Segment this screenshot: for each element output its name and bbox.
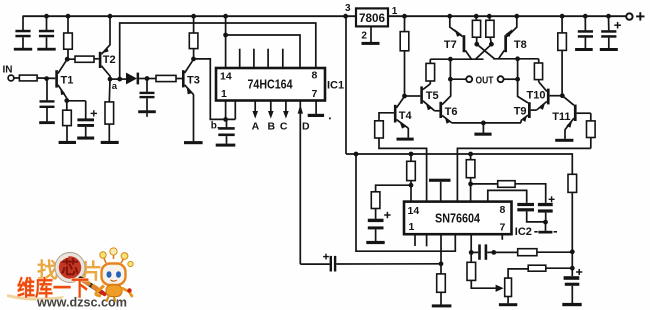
wire: right OUT terminal to node (504, 78, 518, 80)
wire: junction to R14 (376, 185, 411, 192)
svg-text:T7: T7 (444, 39, 457, 51)
resistor Rm1 (cross-couple left) (472, 14, 480, 44)
node: C13 right node (491, 250, 496, 255)
svg-text:IC1: IC1 (327, 80, 344, 92)
pin label 1 (IC2) (409, 221, 415, 233)
svg-text:2: 2 (361, 31, 367, 42)
transistor T4 (394, 96, 413, 137)
wire: 7806 input down to lower rail (345, 16, 347, 154)
wiper arrow into potentiometer (496, 285, 504, 292)
svg-text:T6: T6 (445, 106, 458, 118)
svg-text:T10: T10 (527, 89, 546, 101)
pin label 3 (7806) (345, 3, 351, 14)
capacitor C5 (after diode) (140, 79, 155, 111)
wire: D input line down to lower stage (298, 101, 310, 265)
transistor T5 (420, 84, 439, 111)
ground (common emitter) (474, 133, 491, 136)
mark: period after IC1 (329, 118, 331, 120)
resistor R9 (T5 collector load) (426, 59, 435, 84)
resistor R4 (T1 emitter to gnd) (63, 101, 72, 141)
transistor T11 (552, 96, 591, 139)
resistor R5 (to T3 base) (147, 75, 182, 81)
transistor T2 (99, 16, 116, 79)
svg-text:T8: T8 (514, 39, 527, 51)
svg-text:1: 1 (409, 221, 415, 233)
wire: cross-couple bus left (430, 58, 483, 60)
value label SN76604 (435, 211, 480, 225)
resistor R7 (rail to T4/T5 node) (400, 14, 409, 96)
pin label 7 (IC1) (312, 88, 318, 100)
svg-text:T5: T5 (426, 90, 439, 102)
resistor R22 (supply dropper) (568, 174, 577, 192)
wire: IC2 bottom stub 1 (414, 234, 416, 246)
svg-text:A: A (252, 120, 260, 132)
resistor R19 (pot feed) (528, 265, 572, 271)
node: 7806 input node (343, 14, 348, 19)
svg-text:8: 8 (500, 204, 506, 216)
output arrow B (IC1) (268, 101, 276, 133)
node: left OUT tap (448, 57, 453, 62)
svg-text:7806: 7806 (359, 11, 385, 25)
node: diode cathode junction (145, 76, 150, 81)
node: H2 / R13 tap (409, 152, 414, 157)
value label 7806 (359, 11, 385, 25)
wire: C12 to R17 node (336, 263, 441, 265)
node: T3 collector junction (191, 57, 196, 62)
wire: IC1 unconnected stub 3 (267, 49, 269, 68)
op-amp U2: IC2 SN76604 body (404, 202, 512, 235)
svg-text:74HC164: 74HC164 (248, 78, 293, 92)
node: pin9 feed junction (468, 182, 473, 187)
resistor R8 (T4 base feed) (375, 113, 427, 202)
capacitor C11 electrolytic (538, 196, 555, 222)
svg-text:14: 14 (220, 71, 232, 83)
svg-text:SN76604: SN76604 (435, 211, 480, 225)
wire: +V top rail (right of 7806) (388, 15, 626, 17)
terminal: OUT right (498, 76, 504, 82)
resistor R14 (filter) (371, 192, 380, 219)
transistor T10 (527, 82, 563, 110)
resistor R1 (rail to T1 collector) (64, 14, 73, 59)
wire: pot top to R19 (508, 269, 528, 278)
terminal: +V supply (626, 13, 632, 19)
svg-text:IC2: IC2 (515, 226, 532, 238)
resistor R16 (to C11) (498, 181, 515, 188)
node: left OUT node (448, 77, 453, 82)
transistor T3 (182, 59, 200, 141)
resistor R21 (wiper feed) (467, 252, 496, 288)
ground (C9) (366, 241, 384, 244)
node: T10 base / T11 junction (560, 93, 565, 98)
capacitor C14 electrolytic (output filter) (564, 269, 583, 303)
transistor T6 (439, 79, 457, 124)
label IC1 (327, 80, 344, 92)
node: pin14 feed junction (409, 183, 414, 188)
ground (C4) (77, 137, 94, 140)
terminal: OUT left (466, 76, 472, 82)
node: Rm1 bottom (474, 42, 479, 47)
pin label 1 (IC1) (221, 88, 227, 100)
svg-text:8: 8 (312, 70, 318, 82)
capacitor C8 electrolytic (rail bypass right) (600, 14, 621, 51)
svg-text:芯: 芯 (61, 257, 79, 278)
wire: IC2 pin stub to R17 (440, 234, 442, 274)
output arrow A (IC1) (252, 101, 260, 133)
ground (R5a) (101, 141, 119, 144)
wire: right tap down (517, 59, 519, 79)
label IN (3, 65, 13, 76)
node: R17 top node (439, 261, 444, 266)
wire: node a to diode (110, 78, 126, 80)
node: right OUT node (515, 77, 520, 82)
capacitor C10 (IC2 bypass) (517, 203, 545, 222)
resistor R17 (to gnd) (437, 274, 446, 305)
pin label 7 (IC2) (500, 222, 506, 234)
node: T1 base junction (44, 76, 49, 81)
ground (R17) (432, 304, 452, 307)
capacitor C6 (node b to gnd) (218, 119, 234, 143)
ground (C14) (562, 303, 581, 306)
ground (C5) (138, 110, 156, 117)
ground (T4 emitter) (397, 138, 414, 141)
resistor R13 (supply to IC2 pin14) (407, 154, 416, 185)
wire: IC1 pin 14 to +V rail (223, 14, 228, 68)
wire: emitter node to C4 (67, 101, 86, 119)
wire: 7806 pin 2 to gnd (370, 26, 372, 42)
capacitor C13 (coupling) (471, 244, 494, 259)
wire: IC2 bottom stub 2 (426, 234, 428, 246)
wire: IC1 pin 1 stub (225, 101, 227, 120)
wire: IC2 top pin to C10 (488, 190, 527, 203)
resistor R12 (T11 collector) (587, 113, 596, 148)
ground (C6) (216, 144, 236, 147)
pin label 1 (7806) (392, 6, 398, 17)
svg-text:7: 7 (312, 88, 318, 100)
svg-text:B: B (268, 120, 276, 132)
ground (7806) (362, 42, 380, 45)
wire: node a up and over to IC1 pin8 (120, 23, 316, 79)
svg-text:C: C (280, 120, 288, 132)
wire: tap down, under IC2, up to pin (356, 154, 455, 251)
svg-text:3: 3 (345, 3, 351, 14)
antenna stub (IC2 pin 12) (429, 179, 451, 202)
wire: T6/T9 common emitter (452, 122, 521, 124)
node: T1 emitter junction (64, 98, 69, 103)
wire: junction to IC2 pin 14 (410, 185, 412, 201)
svg-text:7: 7 (500, 222, 506, 234)
svg-text:D: D (302, 120, 310, 132)
wire: cross diagonal 1 (477, 44, 495, 59)
resistor Rm2 (cross-couple right) (486, 14, 494, 44)
svg-text:1: 1 (221, 88, 227, 100)
node: right OUT tap (515, 56, 520, 61)
ground (T3 emitter) (184, 141, 203, 144)
resistor R10 (T10 collector load) (534, 59, 542, 82)
svg-text:T4: T4 (399, 110, 413, 122)
pin label 8 (IC1) (312, 70, 318, 82)
capacitor C7 (rail bypass right) (575, 14, 593, 51)
value label 74HC164 (248, 78, 293, 92)
capacitor C12 electrolytic (coupling) (323, 254, 336, 272)
svg-text:T1: T1 (61, 75, 74, 87)
label IC2 (515, 226, 532, 238)
ground (R4) (59, 141, 76, 144)
transistor T7 (444, 14, 472, 59)
ground (R20) (499, 303, 517, 306)
node: T4 collector / T5 base (402, 94, 407, 99)
svg-text:T2: T2 (103, 54, 116, 66)
label b (211, 121, 220, 132)
resistor R11 (rail divider to T10/T11) (558, 14, 567, 96)
wire: IC1 unconnected stub 4 (282, 49, 284, 68)
resistor R18 (feedback) (494, 249, 573, 256)
svg-text:T9: T9 (514, 106, 527, 118)
svg-text:14: 14 (408, 205, 420, 217)
pin label 14 (IC1) (220, 71, 232, 83)
wire: to left OUT terminal (450, 78, 466, 80)
wire: IC1 pin 7 stub (315, 101, 317, 114)
wire: junction to R16 (471, 183, 498, 185)
svg-text:OUT: OUT (476, 75, 494, 86)
transistor T1 (55, 59, 73, 100)
pin label 14 (IC2) (408, 205, 420, 217)
capacitor C4 electrolytic (T1 emitter bypass) (77, 110, 97, 136)
terminal: IN input (8, 75, 14, 81)
node: a / feedback wire junction (117, 77, 122, 82)
node: pin14/clock wire junction (223, 33, 228, 38)
ground (IC1 pin 7) (308, 114, 324, 117)
wire: T11 load line H1 to IC2 (457, 148, 590, 201)
svg-text:T11: T11 (552, 111, 570, 123)
resistor R6 (rail to T3 collector) (189, 14, 198, 60)
wire: node to T5 base (405, 95, 421, 97)
node: T1 collector / R2 junction (65, 57, 70, 62)
resistor R2 (to T2 base) (67, 56, 99, 62)
wire: cross-couple bus right (493, 58, 539, 60)
node: H2 / R15 tap (468, 152, 473, 157)
wire: D line to C12 (300, 263, 329, 265)
resistor R15 (supply to IC2 pin9) (466, 154, 475, 202)
svg-text:b.: b. (211, 121, 220, 132)
wire: T3 collector to node b (194, 59, 236, 120)
node: C13 left node (469, 250, 474, 255)
regulator U3: 7806 body (356, 8, 388, 26)
resistor R5a (node a to gnd) (105, 79, 114, 141)
wire: node to gnd (545, 222, 547, 231)
node: H2 / IC2 gnd-line tap (354, 152, 359, 157)
pin label 8 (IC2) (500, 204, 506, 216)
node: rail / T2 junction (108, 14, 113, 19)
svg-text:1: 1 (392, 6, 398, 17)
potentiometer R20 (505, 278, 512, 303)
logo: dzsc.com watermark (7, 248, 133, 310)
wire: common emitter to gnd (482, 123, 484, 133)
wire: +V top rail (left of 7806) (23, 15, 357, 17)
wire: R16 to C11 (515, 184, 546, 203)
wire: left tap down (449, 59, 451, 79)
transistor T9 (514, 79, 537, 123)
wire: right column lower (571, 252, 573, 276)
capacitor C3 (T1 base to gnd) (39, 79, 55, 125)
output arrow C (IC1) (280, 101, 289, 133)
node: Rm2 bottom (489, 42, 494, 47)
capacitor C2 (rail bypass) (37, 14, 55, 51)
wire: junction to IC1 top pin (226, 35, 300, 68)
op-amp U1: IC1 74HC164 body (216, 68, 325, 101)
node: common emitter junction (481, 121, 486, 126)
pin label 2 (7806) (361, 31, 367, 42)
diode D1 (126, 73, 147, 85)
wire: IC2 bottom stub 7 (501, 234, 503, 240)
svg-text:T3: T3 (187, 75, 200, 87)
label + (supply) (636, 12, 644, 20)
transistor T8 (499, 14, 527, 59)
node: right column node 1 (570, 249, 575, 254)
node a (108, 77, 118, 93)
node b (223, 117, 228, 122)
svg-text:IN: IN (3, 65, 13, 76)
node: right column node 2 (570, 266, 575, 271)
wire: lower supply rail H2 (346, 154, 572, 252)
capacitor C9 electrolytic (filter) (368, 212, 391, 241)
label OUT (476, 75, 494, 86)
ground (T11 emitter) (555, 139, 573, 142)
wire: R3 to T1 base (37, 77, 55, 79)
ground (C10/C11) (534, 231, 557, 234)
wire: IC1 pin 2 stub (234, 101, 236, 120)
node: C10/C11 ground node (543, 220, 548, 225)
wire: IN to R3 (14, 77, 20, 79)
wire: IC1 unconnected stub 1 (239, 49, 241, 68)
svg-text:a: a (112, 81, 118, 92)
capacitor C1 (rail bypass) (14, 16, 32, 50)
wire: IC2 pin stub to C13 node (470, 234, 472, 252)
wire: cross diagonal 2 (476, 44, 492, 59)
resistor R3 (input series) (19, 75, 37, 81)
wire: IC1 unconnected stub 2 (253, 49, 255, 68)
